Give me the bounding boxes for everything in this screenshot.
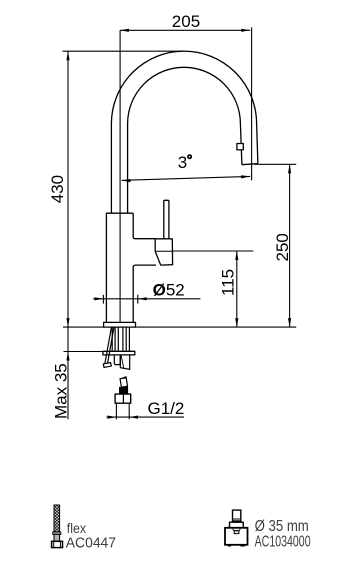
svg-text:430: 430 — [48, 175, 67, 203]
svg-text:205: 205 — [172, 12, 200, 31]
svg-text:Ø52: Ø52 — [153, 281, 185, 300]
svg-text:3: 3 — [178, 153, 187, 172]
svg-text:115: 115 — [218, 269, 237, 296]
svg-text:AC1034000: AC1034000 — [255, 534, 311, 551]
svg-text:G1/2: G1/2 — [148, 399, 185, 418]
svg-text:250: 250 — [273, 233, 292, 261]
svg-text:Max 35: Max 35 — [52, 363, 71, 419]
svg-text:Ø 35 mm: Ø 35 mm — [255, 518, 309, 535]
svg-text:AC0447: AC0447 — [66, 534, 116, 551]
